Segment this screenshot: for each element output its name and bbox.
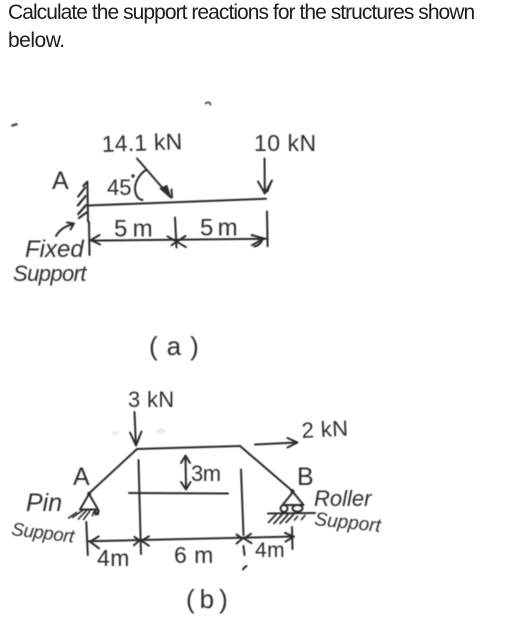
faint smudge left of 3kN arrow: [112, 431, 118, 435]
label Support (pin): [11, 518, 77, 547]
roller support triangle: [283, 492, 304, 505]
label Pin: [26, 489, 62, 517]
stray pen mark above beam: [206, 102, 211, 104]
force label 3 kN: [128, 387, 174, 412]
dimension extension line left: [88, 222, 91, 255]
dimension label 5 m left: [114, 216, 152, 243]
pin support hatching: [69, 510, 99, 520]
roller apex blob: [291, 489, 295, 493]
fixed support wall line: [86, 182, 89, 222]
fixed support hatching: [78, 182, 87, 218]
svg-text:(b): (b): [186, 584, 233, 614]
top chord: [137, 446, 240, 449]
svg-text:45: 45: [107, 175, 131, 200]
pin support triangle: [80, 494, 98, 510]
dim arrowheads middle (asterisk): [168, 236, 187, 247]
svg-text:4m: 4m: [255, 539, 285, 562]
3m dimension arrow: [185, 457, 188, 488]
pin apex blob: [87, 492, 91, 496]
caption (b): [186, 584, 233, 614]
force 3 kN arrow shaft: [135, 412, 136, 443]
force 14.1 kN arrowhead: [160, 186, 171, 199]
svg-text:Support: Support: [13, 261, 87, 286]
dimension label 4m right: [255, 539, 285, 562]
svg-text:below.: below.: [8, 29, 65, 52]
label Roller: [314, 486, 373, 511]
dimension label 6 m: [174, 542, 214, 568]
roller ground hatching: [269, 515, 306, 524]
dimension extension right: [291, 527, 294, 549]
svg-text:A: A: [52, 167, 69, 195]
lower chord: [129, 492, 228, 495]
dimension extension line right: [266, 212, 269, 247]
faint smudge right of 3kN arrow: [156, 428, 166, 434]
force 10 kN arrow shaft: [264, 159, 266, 192]
svg-text:Fixed: Fixed: [25, 236, 84, 263]
dimension label 5 m right: [200, 215, 237, 242]
force 14.1 kN arrow shaft: [137, 159, 170, 197]
right inclined member: [240, 446, 293, 492]
stray pen mark top-left: [13, 124, 17, 125]
angle label 45: [107, 174, 135, 200]
dimension tick middle: [175, 218, 177, 248]
roller wheels: [281, 505, 288, 512]
dimension extension below pin: [86, 522, 88, 555]
bottom dim arrowheads at x=140: [134, 537, 140, 545]
bottom dim arrowheads at x=243: [237, 535, 243, 544]
svg-text:B: B: [297, 463, 314, 491]
svg-text:(a): (a): [149, 331, 208, 361]
svg-text:10 kN: 10 kN: [254, 130, 317, 156]
svg-text:5 m: 5 m: [114, 216, 152, 243]
beam: [88, 199, 266, 206]
dimension line 5m 5m: [91, 239, 266, 241]
svg-text:Calculate the support reaction: Calculate the support reactions for the …: [8, 1, 475, 24]
node label B: [297, 463, 314, 491]
svg-text:2 kN: 2 kN: [301, 416, 349, 443]
dim arrowhead right: [252, 235, 265, 245]
caption (a): [149, 331, 208, 361]
dim arrowhead left: [91, 235, 100, 245]
svg-text:3m: 3m: [191, 461, 221, 486]
svg-text:A: A: [73, 463, 90, 491]
svg-text:6 m: 6 m: [174, 542, 214, 568]
dimension label 4m left: [97, 545, 130, 571]
force 10 kN arrowhead: [258, 181, 272, 194]
bottom dim arrowhead far right: [285, 533, 294, 542]
bottom dim arrowhead far left: [90, 536, 99, 548]
label Support (a): [13, 261, 87, 286]
label Fixed: [25, 236, 84, 263]
dimension label 3m: [191, 461, 221, 486]
svg-text:Roller: Roller: [314, 486, 373, 511]
force label 14.1 kN: [101, 128, 183, 157]
force 2 kN arrow: [255, 443, 297, 445]
node label A: [52, 167, 69, 195]
fixed support annotation arrow: [56, 225, 72, 237]
right vertical member dashes: [244, 546, 245, 555]
svg-text:Pin: Pin: [26, 489, 62, 517]
force label 2 kN: [301, 416, 349, 443]
left vertical member: [139, 460, 142, 554]
stray comma below dimension: [243, 566, 247, 570]
svg-text:3 kN: 3 kN: [128, 387, 174, 412]
svg-text:14.1 kN: 14.1 kN: [101, 128, 183, 157]
bottom dimension line: [89, 537, 295, 542]
right vertical member: [241, 470, 244, 536]
roller ground line: [268, 512, 315, 515]
force 3 kN arrowhead: [130, 432, 142, 446]
angle arc 45: [135, 170, 146, 201]
svg-text:5 m: 5 m: [200, 215, 237, 242]
node label A (b): [73, 463, 90, 491]
force label 10 kN: [254, 130, 317, 156]
svg-text:4m: 4m: [97, 545, 130, 571]
left inclined member: [90, 449, 137, 493]
label Support (roller): [313, 509, 382, 537]
